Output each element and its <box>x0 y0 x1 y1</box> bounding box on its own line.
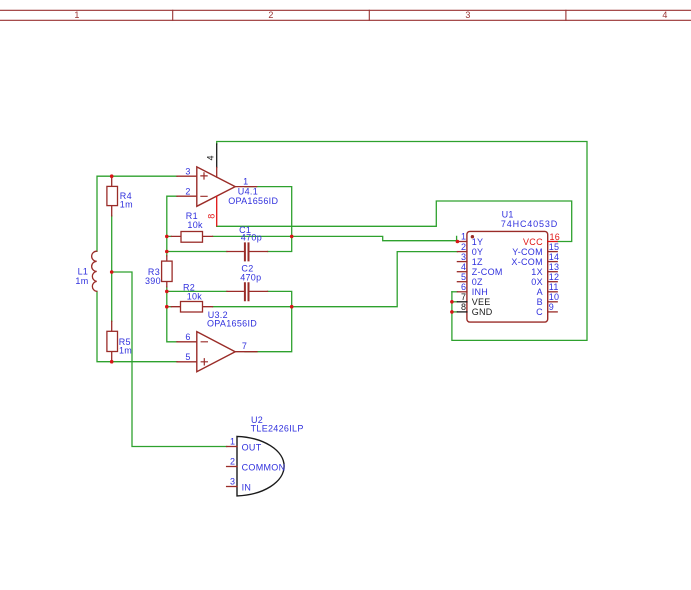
IC U1 74HC4053D <box>467 210 558 322</box>
U1 pin 5 0Z <box>457 272 483 287</box>
wire R1 left stub <box>167 235 172 237</box>
svg-text:14: 14 <box>549 252 560 262</box>
wire U1 pin6 stub <box>452 291 458 293</box>
svg-text:VEE: VEE <box>472 297 491 307</box>
wire left rail bottom: L1 bottom to pin5 <box>97 291 177 361</box>
svg-text:U4.1: U4.1 <box>238 186 258 196</box>
svg-text:4: 4 <box>206 155 216 160</box>
svg-text:5: 5 <box>461 272 466 282</box>
wire V+ pin8 to U1 VCC <box>217 201 572 242</box>
svg-text:2: 2 <box>461 242 466 252</box>
svg-text:OUT: OUT <box>242 443 262 453</box>
svg-text:B: B <box>537 297 543 307</box>
U2 pin 1 OUT <box>227 436 262 452</box>
capacitor C1 <box>227 225 268 260</box>
U1 pin 15 Y-COM <box>512 242 559 257</box>
resistor R2 <box>171 283 212 312</box>
svg-text:1: 1 <box>74 10 79 20</box>
U1 pin 14 X-COM <box>511 252 559 267</box>
svg-text:10k: 10k <box>187 220 203 230</box>
resistor R4 <box>107 176 133 216</box>
wire R3 bottom down to pin6 <box>167 287 177 342</box>
junction top node <box>110 174 114 178</box>
svg-text:12: 12 <box>549 272 560 282</box>
svg-text:0Z: 0Z <box>472 277 483 287</box>
resistor R1 <box>171 211 212 242</box>
svg-text:0Y: 0Y <box>472 247 484 257</box>
svg-text:Y-COM: Y-COM <box>512 247 543 257</box>
wire op-amp pin2 down to R3 <box>167 196 177 256</box>
svg-text:VCC: VCC <box>523 237 543 247</box>
op-amp U4.1 <box>177 166 278 206</box>
svg-text:C: C <box>536 307 543 317</box>
U1 pin 9 C <box>536 302 557 317</box>
frame divider 1/2 <box>172 10 174 20</box>
svg-text:0X: 0X <box>531 277 543 287</box>
U1 pin 2 0Y <box>457 242 483 257</box>
svg-text:390: 390 <box>145 276 161 286</box>
resistor R3 <box>145 256 172 287</box>
svg-text:1m: 1m <box>120 200 133 210</box>
svg-text:6: 6 <box>185 332 190 342</box>
svg-text:GND: GND <box>472 307 493 317</box>
junction U1 pin8 <box>450 310 454 314</box>
svg-text:OPA1656ID: OPA1656ID <box>207 318 257 328</box>
U1 pin 13 1X <box>531 262 559 277</box>
U1 pin 10 B <box>537 292 560 307</box>
svg-text:2: 2 <box>230 456 235 466</box>
op-amp U4 power pin 8 <box>207 196 217 226</box>
svg-text:4: 4 <box>461 262 466 272</box>
U1 pin 11 A <box>537 282 559 297</box>
inductor L1 <box>75 251 96 291</box>
svg-text:COMMON: COMMON <box>242 463 286 473</box>
U1 pin 1 1Y <box>457 232 483 247</box>
junction C1 left <box>165 250 169 254</box>
wire C2 right down to R2 node <box>245 291 292 351</box>
svg-text:1Z: 1Z <box>472 257 483 267</box>
svg-text:A: A <box>537 287 543 297</box>
svg-text:15: 15 <box>549 242 560 252</box>
svg-text:TLE2426ILP: TLE2426ILP <box>251 423 304 433</box>
frame top line <box>0 9 691 11</box>
svg-text:1m: 1m <box>75 276 88 286</box>
svg-text:3: 3 <box>185 166 190 176</box>
junction R2 left <box>165 305 169 309</box>
svg-text:IN: IN <box>242 483 252 493</box>
svg-text:10: 10 <box>549 292 560 302</box>
svg-text:2: 2 <box>268 10 273 20</box>
wire V- supply loop pin4 to U1 VEE GND <box>217 142 587 341</box>
wire C1 left <box>167 251 227 253</box>
svg-text:74HC4053D: 74HC4053D <box>501 219 558 229</box>
U1 pin 3 1Z <box>457 252 483 267</box>
svg-text:9: 9 <box>549 302 554 312</box>
junction U1 pin7 <box>450 300 454 304</box>
svg-text:1m: 1m <box>119 346 132 356</box>
junction C2 left <box>165 290 169 294</box>
svg-text:6: 6 <box>461 282 466 292</box>
svg-text:1: 1 <box>243 176 248 186</box>
U2 pin 3 IN <box>227 476 252 492</box>
svg-text:470p: 470p <box>240 273 261 283</box>
svg-text:1: 1 <box>461 232 466 242</box>
frame divider 2/3 <box>368 10 370 20</box>
svg-text:11: 11 <box>549 282 559 292</box>
svg-text:7: 7 <box>461 292 466 302</box>
op-amp U4 power pin 4 <box>206 144 217 177</box>
op-amp U3.2 <box>177 310 257 372</box>
wire R1 right to jog <box>213 236 458 240</box>
svg-text:1Y: 1Y <box>472 237 484 247</box>
wire middle node branch to U2 OUT <box>112 272 227 447</box>
junction middle node <box>110 270 114 274</box>
wire R2 right to U1 pin2 <box>213 252 458 307</box>
svg-text:3: 3 <box>465 10 470 20</box>
junction R1 left <box>165 235 169 239</box>
frame bottom line <box>0 19 691 21</box>
junction opamp2 output <box>290 305 294 309</box>
wire R2 left stub <box>167 306 172 308</box>
U1 pin 8 GND <box>457 302 492 317</box>
U1 pin 16 VCC <box>523 232 560 247</box>
voltage reference U2 TLE2426ILP <box>237 415 304 496</box>
svg-text:7: 7 <box>242 341 247 351</box>
wire U1 pin7 stub <box>452 301 458 303</box>
junction bottom node <box>110 360 114 364</box>
svg-text:16: 16 <box>550 232 561 242</box>
svg-text:INH: INH <box>472 287 488 297</box>
junction U1 pin1 <box>456 240 460 244</box>
svg-text:470p: 470p <box>241 233 262 243</box>
junction opamp1 output <box>290 235 294 239</box>
svg-text:4: 4 <box>662 10 667 20</box>
wire left rail top: node to L1 top <box>97 176 177 251</box>
U1 pin 12 0X <box>531 272 559 287</box>
wire U1 pin8 stub <box>452 311 458 313</box>
frame divider 3/4 <box>565 10 567 20</box>
svg-text:13: 13 <box>549 262 560 272</box>
svg-text:8: 8 <box>461 302 466 312</box>
U1 pin 4 Z-COM <box>457 262 502 277</box>
svg-text:2: 2 <box>185 186 190 196</box>
svg-text:1: 1 <box>230 436 235 446</box>
wire C2 left <box>167 290 227 292</box>
svg-text:10k: 10k <box>187 291 203 301</box>
svg-text:1X: 1X <box>531 267 543 277</box>
svg-text:5: 5 <box>185 352 190 362</box>
svg-text:Z-COM: Z-COM <box>472 267 503 277</box>
svg-text:OPA1656ID: OPA1656ID <box>228 196 278 206</box>
wire C1 right to output vertical <box>245 187 292 252</box>
U1 pin 6 INH <box>457 282 488 297</box>
svg-text:3: 3 <box>461 252 466 262</box>
U2 pin 2 COMMON <box>227 456 286 472</box>
svg-text:U1: U1 <box>502 210 514 220</box>
U1 pin 7 VEE <box>457 292 490 307</box>
wire tick at U1 pin1 <box>456 236 458 241</box>
svg-text:3: 3 <box>230 476 235 486</box>
resistor R5 <box>107 321 132 361</box>
svg-text:X-COM: X-COM <box>511 257 543 267</box>
svg-text:8: 8 <box>207 213 217 218</box>
capacitor C2 <box>227 264 268 301</box>
wire R4 bottom to middle node to R5 top <box>111 216 113 321</box>
